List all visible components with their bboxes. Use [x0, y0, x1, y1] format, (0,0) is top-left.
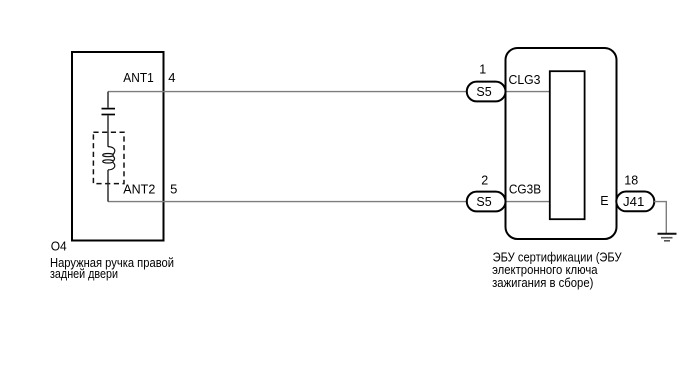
svg-text:CLG3: CLG3 — [509, 73, 541, 87]
dashed enclosure of antenna coil — [93, 132, 124, 183]
capacitor C (antenna) — [102, 109, 116, 115]
connector S5 pin 1 oval — [467, 82, 506, 102]
wire ANT1 to CLG3 (left segment) — [108, 91, 467, 93]
svg-text:J41: J41 — [623, 195, 644, 209]
svg-text:1: 1 — [479, 62, 486, 76]
svg-text:18: 18 — [624, 174, 638, 188]
svg-text:2: 2 — [481, 173, 488, 187]
svg-text:E: E — [600, 194, 608, 208]
connector J41 oval — [616, 192, 654, 212]
ECU box (certification ECU) — [506, 48, 617, 239]
wire lead coil to ANT2 — [107, 170, 109, 202]
svg-text:зажигания в сборе): зажигания в сборе) — [492, 276, 593, 290]
svg-text:S5: S5 — [476, 85, 491, 99]
ECU inner rectangle — [550, 71, 585, 219]
wire ANT2 to CG3B (left segment) — [108, 201, 467, 203]
inductor L antenna coil — [103, 147, 115, 170]
svg-text:4: 4 — [168, 70, 175, 85]
svg-text:O4: O4 — [51, 239, 67, 253]
wire CG3B inside ECU — [506, 201, 551, 203]
wire CLG3 inside ECU — [506, 91, 551, 93]
wire J41 to ground — [654, 202, 666, 233]
svg-text:S5: S5 — [476, 195, 491, 209]
wire lead capacitor to coil — [107, 115, 109, 146]
svg-text:ANT2: ANT2 — [123, 182, 155, 197]
connector S5 pin 2 oval — [467, 192, 506, 212]
svg-text:5: 5 — [170, 182, 177, 197]
svg-text:электронного ключа: электронного ключа — [492, 263, 598, 277]
wire lead ANT1 down to capacitor — [107, 92, 109, 108]
component O4: outer door handle box — [72, 52, 164, 241]
svg-text:ANT1: ANT1 — [123, 70, 153, 85]
svg-text:CG3B: CG3B — [509, 183, 541, 197]
svg-text:задней двери: задней двери — [50, 267, 118, 281]
ground symbol — [658, 234, 677, 241]
